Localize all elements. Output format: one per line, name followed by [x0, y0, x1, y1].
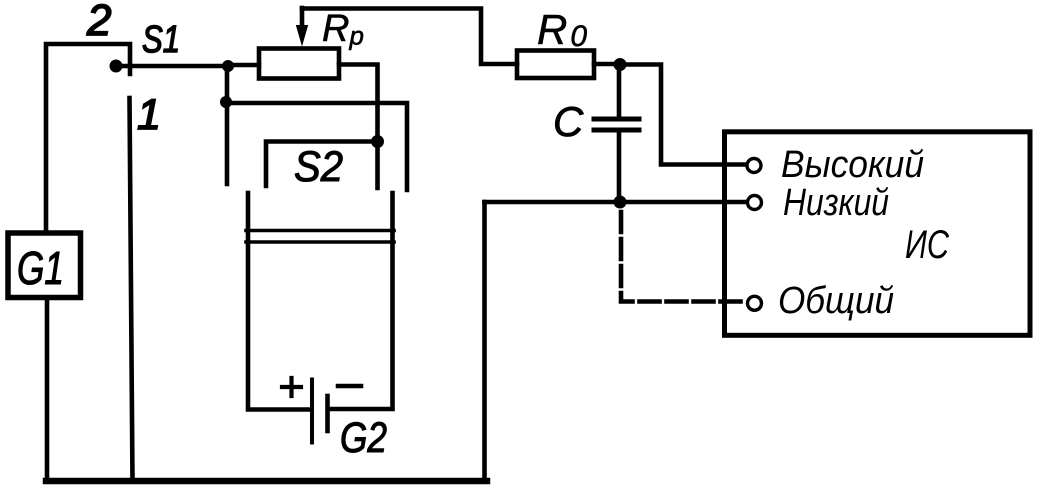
node D junction dot: [614, 196, 627, 209]
wire: G1 top up and right to S1 contact 2: [46, 44, 130, 232]
wire: Nizkiy horizontal from left riser through node D to terminal: [485, 200, 748, 205]
wire: S1 pole to node A: [121, 64, 228, 69]
Rp wiper arrow: [300, 8, 305, 27]
IS instrument box: [725, 132, 1031, 335]
wire: wiper top horizontal to the right and down to R0: [302, 9, 517, 65]
svg-text:2: 2: [86, 0, 111, 45]
potentiometer Rp body: [259, 49, 339, 79]
node B junction dot: [220, 96, 232, 108]
resistor R0 body: [517, 51, 594, 79]
wire: node C down to capacitor C: [617, 65, 622, 117]
wire: Rp right terminal down to S2 dot and contact: [339, 65, 378, 189]
battery G2 positive long plate: [310, 380, 314, 443]
battery G2 negative short plate: [325, 396, 330, 431]
wire: node B right then down to cell right contact: [226, 103, 407, 190]
svg-text:1: 1: [137, 91, 161, 139]
wire: left riser down to bottom wire: [482, 202, 487, 481]
svg-text:G1: G1: [17, 242, 64, 294]
svg-text:ИС: ИС: [905, 223, 950, 267]
terminal circle Nizkiy: [748, 196, 762, 210]
svg-text:Общий: Общий: [778, 280, 894, 322]
wire: node C right, down, to Vysokiy terminal: [620, 65, 747, 165]
svg-text:Низкий: Низкий: [783, 182, 889, 224]
bottom wire: [46, 478, 487, 485]
switch S1 pole dot: [110, 60, 123, 73]
switch S1 contact 1 line down to bottom wire: [130, 98, 133, 481]
node C junction dot: [614, 58, 627, 71]
measuring cell left electrode and wire to battery plus: [248, 193, 308, 410]
svg-text:Высокий: Высокий: [781, 144, 924, 186]
svg-text:C: C: [553, 98, 584, 145]
dashed wire: node D to Obshchiy terminal: [621, 212, 746, 302]
svg-text:Rp: Rp: [322, 8, 364, 51]
node A junction dot: [222, 60, 234, 72]
terminal circle Obshchiy: [748, 296, 762, 310]
measuring cell lower plate: [246, 240, 394, 244]
terminal circle Vysokiy: [747, 159, 761, 173]
wire: capacitor C to node D: [617, 132, 622, 202]
label plus: [282, 378, 301, 396]
wire: node B down (S2 left contact): [225, 102, 230, 184]
measuring cell right electrode and wire to battery minus: [331, 193, 393, 409]
generator G1 box: [8, 233, 81, 298]
wire: node A to Rp left terminal: [228, 63, 259, 68]
svg-text:R0: R0: [537, 6, 590, 53]
wire: node A down to node B: [225, 66, 230, 102]
svg-text:S2: S2: [294, 143, 343, 191]
capacitor C top plate: [594, 117, 639, 122]
S2 junction dot: [371, 135, 384, 148]
wire: R0 right to node C: [594, 62, 620, 67]
label minus: [338, 384, 361, 389]
wire: G1 bottom to bottom wire: [45, 300, 50, 481]
measuring cell upper plate: [246, 229, 394, 233]
switch S2 bracket: [266, 142, 378, 187]
capacitor C bottom plate: [594, 128, 639, 133]
svg-text:S1: S1: [142, 19, 180, 61]
svg-text:G2: G2: [340, 414, 387, 462]
